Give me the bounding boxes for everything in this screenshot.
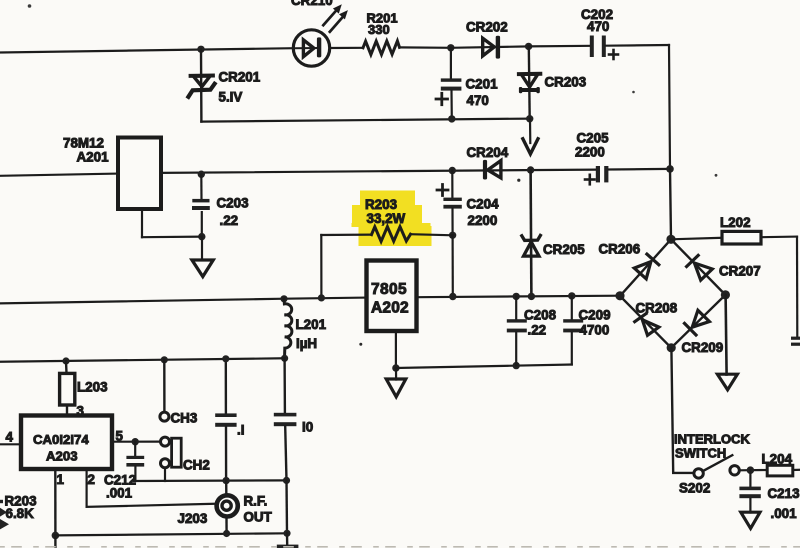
svg-text:330: 330 — [368, 22, 390, 37]
wire top rail from left edge to LED anode — [0, 48, 293, 52]
wire mid rail left edge to A201 regulator — [0, 174, 118, 176]
node C201 bottom on rail — [448, 115, 455, 122]
inductor L203 stem top — [65, 361, 68, 373]
wire pin1 continues below edge — [54, 535, 56, 548]
node C208 bottom — [513, 362, 520, 369]
svg-text:.001: .001 — [771, 506, 798, 521]
wire ground rail 7805 to C209 bottom — [396, 365, 572, 369]
capacitor C204 stem top — [451, 171, 453, 199]
svg-text:.22: .22 — [220, 213, 239, 228]
node C208 top — [513, 293, 520, 300]
wire node to CR202 anode — [451, 46, 529, 47]
svg-text:C208: C208 — [524, 308, 557, 323]
plus sign C201 — [436, 93, 448, 104]
wire node to C202 left plate — [529, 45, 591, 48]
capacitor C213 stem top — [749, 470, 751, 487]
wire IC pin 5 to CH2 — [112, 441, 160, 443]
capacitor C201 stem bottom to rail node — [450, 91, 452, 119]
capacitor C201 stem top — [450, 48, 452, 79]
capacitor 10 stem top — [283, 358, 286, 413]
resistor R203 zigzag — [372, 227, 411, 242]
svg-text:C205: C205 — [577, 131, 610, 146]
wire C202 right plate to corner — [606, 44, 669, 47]
svg-text:78M12: 78M12 — [63, 136, 104, 151]
wire IC pin 4 from left edge — [0, 443, 21, 445]
inductor L202 box — [722, 231, 761, 244]
node CR205 top on mid rail — [527, 166, 534, 173]
wire C204 node down to +5 rail — [452, 235, 454, 296]
svg-text:CR207: CR207 — [719, 264, 761, 279]
capacitor C208 plates — [507, 319, 527, 332]
node C203 top — [198, 171, 205, 178]
node CH3 tap on lower rail — [161, 356, 168, 363]
scan speck below R203 — [359, 343, 362, 346]
wire LED cathode to R201 — [330, 47, 363, 49]
wire right edge vertical down to capacitor — [796, 237, 798, 338]
node at CR201 tap on top rail — [197, 46, 204, 53]
svg-text:L203: L203 — [77, 380, 108, 395]
svg-text:CR205: CR205 — [543, 242, 585, 257]
node bridge top corner — [666, 235, 675, 244]
wire L202 to right corner — [761, 236, 797, 239]
connector CH2 lower circle — [161, 459, 170, 468]
capacitor C201 plates — [441, 78, 462, 90]
svg-text:C201: C201 — [466, 77, 499, 92]
wire A201 output to CR204 — [161, 170, 596, 173]
node C204 branch on rail — [449, 293, 456, 300]
svg-text:C203: C203 — [217, 196, 249, 211]
svg-text:R203: R203 — [365, 197, 397, 212]
LED light arrow 2 — [330, 10, 348, 32]
svg-text:J203: J203 — [178, 511, 208, 526]
svg-text:CH2: CH2 — [183, 458, 210, 473]
svg-text:CR206: CR206 — [599, 242, 641, 257]
wire A201 ground stub down — [141, 209, 143, 237]
wire R201 to C201 node — [400, 46, 451, 49]
wire J203 stem bottom — [225, 519, 228, 533]
wire +5 rail from left edge to 7805 input — [0, 298, 367, 304]
svg-text:7805: 7805 — [371, 281, 407, 298]
node J203 top on ground wire — [223, 477, 230, 484]
svg-text:4700: 4700 — [580, 323, 610, 338]
wire IC pin 2 down and right to J203 — [87, 469, 214, 507]
wire A201 ground stub right to node — [142, 236, 202, 239]
switch S202 lever — [704, 455, 733, 470]
ground arrow below 7805 — [386, 379, 406, 397]
resistor R201 zigzag — [363, 41, 400, 55]
svg-text:INTERLOCK: INTERLOCK — [674, 432, 750, 447]
node bridge bottom corner — [667, 343, 676, 352]
capacitor C208 stem top — [515, 296, 517, 320]
connector CH2 upper circle — [161, 437, 170, 446]
LED CR210 diode triangle — [303, 40, 314, 57]
svg-text:CR204: CR204 — [467, 145, 509, 160]
capacitor .1 stem bottom — [225, 427, 228, 481]
ground arrow below bridge right corner — [717, 374, 737, 390]
node pin1 on bottom rail — [52, 532, 60, 540]
IC U A203 CA012174 box — [21, 416, 112, 470]
capacitor C204 plates — [443, 198, 461, 209]
diode CR208 on lower-left arm — [635, 314, 659, 336]
inductor L201 coil — [284, 299, 292, 358]
wire vertical corner down to C205 node — [669, 45, 670, 169]
capacitor C209 stem top — [571, 296, 573, 321]
zener CR201 triangle — [191, 76, 213, 87]
svg-text:5: 5 — [116, 429, 124, 444]
node bridge right corner — [721, 290, 730, 299]
scan speck top left — [28, 4, 32, 8]
node L201 bottom — [281, 355, 288, 362]
node CR203 top — [525, 43, 532, 50]
svg-text:C209: C209 — [579, 308, 611, 323]
zener CR205 open triangle pointing up — [524, 242, 540, 256]
plus sign C202 — [609, 50, 618, 59]
wire vertical C202 corner node down to bridge top — [670, 169, 671, 239]
LED CR210 internal wire — [294, 47, 317, 49]
wire CH2 lower circle to ground wire — [164, 468, 166, 481]
capacitor .1 plates — [215, 413, 236, 426]
capacitor C209 plates — [563, 319, 583, 332]
svg-text:4: 4 — [6, 430, 14, 445]
node bridge left corner — [615, 291, 624, 300]
capacitor .1 stem top — [225, 359, 227, 414]
wire ground run C212 to 10 cap bottom — [134, 479, 287, 482]
node CR203 bottom on rail — [526, 115, 533, 122]
node C204 top on mid rail — [449, 167, 456, 174]
wire 7805 output rail to bridge left corner — [417, 296, 621, 298]
svg-text:C204: C204 — [467, 197, 500, 212]
wire bridge top corner to L202 — [671, 238, 722, 240]
svg-text:C213: C213 — [768, 486, 800, 501]
diode CR203 triangle — [519, 74, 540, 87]
capacitor C203 plates — [192, 199, 210, 210]
wire rail y119 from CR201 corner to CR203 bottom node — [201, 119, 530, 122]
diode CR206 on upper-left arm — [634, 254, 659, 279]
node C203 bottom junction — [198, 233, 205, 240]
svg-text:CH3: CH3 — [171, 411, 198, 426]
svg-text:2200: 2200 — [575, 145, 605, 160]
svg-text:S202: S202 — [679, 481, 710, 496]
wire R203 left lead down to +5 rail — [320, 235, 322, 298]
node .1 bottom on ground wire — [223, 477, 230, 484]
node C213 top — [747, 466, 755, 474]
svg-text:1: 1 — [57, 472, 65, 487]
regulator U A201 78M12 box — [118, 138, 161, 210]
diode CR204 cathode bar — [483, 160, 487, 180]
diode CR202 triangle — [483, 38, 495, 56]
svg-text:6.8K: 6.8K — [6, 506, 35, 521]
switch S202 throw contact — [730, 466, 739, 475]
node L201 top — [280, 295, 287, 302]
zener CR201 stem from top rail — [200, 49, 203, 121]
wire J203 stem top — [225, 481, 228, 493]
svg-text:L202: L202 — [720, 215, 751, 230]
svg-text:CR202: CR202 — [466, 20, 508, 35]
wire IC pin 1 down to bottom rail — [54, 469, 57, 535]
svg-text:470: 470 — [587, 19, 609, 34]
ground stem below C203 — [201, 237, 203, 260]
node C212 top on pin5 wire — [132, 438, 139, 445]
tick before R203 label — [0, 500, 3, 503]
svg-text:CR210: CR210 — [291, 0, 333, 8]
svg-text:.22: .22 — [528, 323, 547, 338]
scan streak at bottom edge — [0, 546, 800, 548]
wire L204 to right edge — [793, 469, 800, 471]
node R203 right — [449, 232, 456, 239]
capacitor 10 plates — [274, 413, 297, 426]
node L203 top on lower rail — [62, 357, 69, 364]
svg-text:A201: A201 — [77, 150, 110, 165]
capacitor at right edge plates — [791, 337, 800, 346]
wire CH3 stem — [163, 360, 165, 412]
diode CR204 triangle pointing left — [488, 161, 501, 178]
svg-text:SWITCH: SWITCH — [675, 446, 726, 461]
scan speck near CR206 — [632, 91, 635, 94]
svg-text:470: 470 — [467, 93, 489, 108]
wire L203 to IC pin 3 — [66, 405, 68, 416]
capacitor C212 stem bottom — [134, 467, 136, 481]
svg-text:CA0I2I74: CA0I2I74 — [33, 432, 89, 447]
diode CR207 on upper-right arm — [687, 255, 713, 280]
connector CH2 shorting bar — [172, 438, 182, 467]
svg-text:CR208: CR208 — [636, 301, 678, 316]
arrow from other circuits large — [0, 519, 9, 529]
node 10 bottom on ground wire — [283, 477, 290, 484]
capacitor 10 stem bottom — [285, 426, 286, 480]
capacitor C203 stem bottom — [201, 212, 203, 237]
ground arrow below C213 — [741, 512, 760, 528]
node CR205 bottom — [528, 293, 535, 300]
svg-text:L204: L204 — [762, 452, 793, 467]
connector J203 outer ring — [217, 495, 238, 516]
diode CR203 cathode bar — [519, 87, 540, 93]
connector J203 center pin — [222, 501, 231, 510]
diode CR202 cathode bar — [496, 36, 500, 59]
capacitor C212 stem top — [134, 442, 136, 456]
inductor L204 box — [767, 465, 793, 476]
node J203 bottom on bottom rail — [223, 530, 230, 537]
wire lower rail from left edge to L201 bottom — [0, 358, 285, 361]
node C201 top — [447, 44, 454, 51]
svg-text:CR203: CR203 — [545, 75, 587, 90]
test point CH3 circle — [160, 412, 169, 421]
ground arrow below C203 — [192, 260, 213, 277]
wire bridge right corner down to ground — [726, 295, 727, 375]
wire C205 right plate to corner node — [608, 168, 670, 171]
svg-text:.001: .001 — [106, 486, 133, 501]
node R203 left on rail — [318, 294, 325, 301]
svg-text:R.F.: R.F. — [244, 494, 268, 509]
wire bridge bottom corner down to interlock switch — [671, 348, 693, 473]
svg-text:2200: 2200 — [468, 213, 498, 228]
wire bottom rail — [55, 533, 287, 535]
svg-text:5.IV: 5.IV — [219, 90, 243, 105]
svg-text:CR209: CR209 — [682, 340, 724, 355]
arrow from other circuits small — [0, 508, 7, 517]
LED light arrow 1 — [323, 4, 342, 25]
node C209 top — [568, 292, 575, 299]
node mid rail meets vertical from C202 — [666, 165, 674, 173]
zener CR201 bar with bent tips — [188, 84, 214, 97]
capacitor at bottom edge plate — [277, 545, 299, 548]
svg-text:IµH: IµH — [296, 336, 317, 351]
bridge diamond wires — [620, 239, 725, 347]
capacitor C204 stem bottom to R203 node — [451, 209, 453, 236]
svg-text:A203: A203 — [46, 449, 78, 464]
diode CR209 on lower-right arm — [685, 310, 710, 335]
highlight marker blob over R203 — [352, 191, 432, 247]
svg-text:CR201: CR201 — [219, 70, 261, 85]
plus sign C204 — [437, 185, 448, 196]
svg-text:I0: I0 — [302, 420, 313, 435]
scan speck near CR205 label — [517, 179, 520, 182]
svg-text:2: 2 — [88, 472, 95, 487]
capacitor C213 plates — [739, 487, 760, 499]
plus sign C205 — [585, 175, 595, 185]
node .1 cap on lower rail — [222, 355, 229, 362]
capacitor C212 plates — [126, 456, 144, 467]
node 7805 ground junction — [392, 364, 399, 371]
wire R203 right lead — [411, 234, 453, 235]
arrow to other circuits below CR203 node — [523, 119, 538, 154]
capacitor C209 stem bottom — [571, 332, 573, 364]
ground stem below 7805 — [395, 368, 397, 380]
capacitor C203 stem top — [200, 174, 202, 199]
svg-text:OUT: OUT — [244, 510, 273, 525]
zener CR205 stem from mid rail — [529, 170, 532, 296]
svg-text:L201: L201 — [296, 317, 327, 332]
wire 10 bottom node down to bottom rail — [285, 480, 288, 533]
diode CR203 stem from top node — [528, 46, 531, 118]
inductor L203 box — [60, 373, 75, 405]
node 10 line on bottom rail — [283, 530, 290, 537]
wire switch to L204 node — [740, 469, 768, 471]
wire R203 left lead — [321, 234, 371, 237]
LED CR210 cathode bar — [317, 37, 321, 57]
regulator U A202 7805 box — [367, 261, 417, 332]
switch S202 pole contact — [694, 469, 703, 478]
capacitor C208 stem bottom — [515, 332, 517, 365]
capacitor at bottom edge stem — [286, 533, 289, 545]
zener CR205 bar with bent tips — [522, 235, 541, 240]
capacitor C205 plates — [596, 166, 609, 182]
svg-text:A202: A202 — [371, 300, 409, 317]
capacitor C213 stem bottom — [749, 498, 751, 512]
scan speck right of C205 — [715, 174, 718, 177]
capacitor C202 plates — [590, 36, 606, 58]
svg-text:.I: .I — [237, 423, 244, 438]
LED CR210 circle — [293, 30, 329, 66]
wire 7805 ground stub down — [395, 331, 397, 368]
